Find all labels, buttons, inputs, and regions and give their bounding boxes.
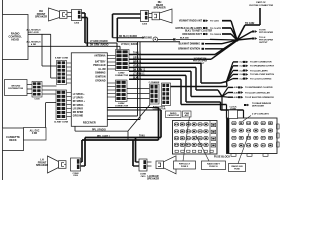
svg-text:C205: C205 <box>74 23 80 25</box>
svg-text:ALL MODELS: ALL MODELS <box>26 29 41 32</box>
wire <box>222 96 228 99</box>
wire <box>176 38 210 40</box>
svg-text:DEFOGGER: DEFOGGER <box>252 105 264 107</box>
svg-text:C100: C100 <box>34 99 40 101</box>
wire <box>113 13 141 15</box>
svg-text:TAN | 1: TAN | 1 <box>133 52 141 55</box>
svg-text:EXC 4 DR: EXC 4 DR <box>28 31 39 34</box>
wire <box>85 42 117 44</box>
wire <box>67 116 72 118</box>
svg-text:TO FUEL PUMP SWITCH: TO FUEL PUMP SWITCH <box>250 74 275 76</box>
svg-text:TO SPEAKERS OUTPUT: TO SPEAKERS OUTPUT <box>250 65 275 68</box>
wire <box>107 96 115 98</box>
svg-text:GROUND: GROUND <box>11 86 21 88</box>
wire <box>67 100 72 102</box>
svg-text:RF SPKR -: RF SPKR - <box>73 105 85 107</box>
wire <box>132 140 134 166</box>
wire <box>158 38 173 40</box>
wire <box>28 45 120 47</box>
wire <box>227 66 234 82</box>
svg-text:CONN: CONN <box>230 109 236 111</box>
fuse block right grid tabs <box>277 124 280 129</box>
label all-exc note box <box>24 128 47 141</box>
svg-text:A 2B: A 2B <box>234 96 239 99</box>
wire <box>190 71 192 96</box>
svg-text:GROUND: GROUND <box>95 80 106 82</box>
receiver <box>71 53 107 127</box>
wire <box>221 109 244 111</box>
wire <box>147 161 152 163</box>
wire <box>180 79 182 104</box>
svg-text:1 CA: 1 CA <box>239 73 244 76</box>
wire <box>226 105 228 119</box>
wire <box>2 0 4 15</box>
wire <box>149 17 153 19</box>
wire <box>67 82 72 84</box>
wire <box>195 67 197 90</box>
junction X blob <box>235 38 238 41</box>
wire <box>222 20 231 22</box>
wire <box>245 24 260 26</box>
wire <box>133 165 139 167</box>
wire <box>139 42 141 120</box>
wire <box>79 161 82 163</box>
label fuse pwr accy <box>174 161 196 169</box>
connector C2 <box>162 83 171 106</box>
wire <box>137 42 139 116</box>
svg-text:SPEAKER: SPEAKER <box>153 7 165 10</box>
wire <box>82 17 88 19</box>
wire <box>127 93 150 95</box>
wire <box>107 68 115 70</box>
wire <box>147 165 152 167</box>
wire <box>67 96 72 98</box>
wire <box>129 70 191 72</box>
wire <box>117 41 180 43</box>
radio control head <box>3 15 29 60</box>
wire <box>127 98 150 100</box>
svg-text:ILLUM: ILLUM <box>98 69 105 71</box>
svg-text:1 CA: 1 CA <box>239 65 244 68</box>
fuse block right grid <box>227 118 278 154</box>
wire <box>222 87 228 96</box>
wire <box>67 74 72 76</box>
connector, RH front speaker <box>72 10 82 21</box>
svg-text:LT GRN | RADIO: LT GRN | RADIO <box>90 40 108 43</box>
wire <box>201 82 221 84</box>
svg-text:LF SPKR -: LF SPKR - <box>73 98 84 100</box>
wire <box>42 65 57 67</box>
cassette deck <box>3 128 24 151</box>
connector A, 8-way <box>116 50 130 71</box>
label radio batt fuse <box>202 161 226 170</box>
wire <box>243 110 245 119</box>
wire <box>85 137 161 139</box>
svg-text:SPEAKER: SPEAKER <box>147 178 159 180</box>
wire <box>129 74 186 76</box>
svg-text:TO C281: TO C281 <box>210 21 220 23</box>
wire <box>107 86 115 88</box>
svg-text:C410: C410 <box>142 23 148 26</box>
svg-text:PART OF: PART OF <box>256 1 266 4</box>
fuse block left grid <box>173 121 218 155</box>
wire <box>129 78 181 80</box>
wire <box>82 139 159 141</box>
wire <box>222 33 231 35</box>
svg-text:BLK | 1: BLK | 1 <box>133 78 142 80</box>
wire <box>67 104 72 106</box>
wire <box>28 33 51 35</box>
svg-text:OUTPUT: OUTPUT <box>259 42 268 44</box>
svg-text:BLK/WHT DIMMING: BLK/WHT DIMMING <box>179 44 201 46</box>
wire <box>51 77 57 79</box>
wire <box>107 82 115 84</box>
connector, ground distribution <box>32 82 42 98</box>
wire <box>50 34 52 78</box>
wire <box>82 12 86 14</box>
wire custom connector stub <box>259 8 261 25</box>
svg-text:DECK: DECK <box>9 138 16 142</box>
svg-text:SPEAKER: SPEAKER <box>36 164 48 167</box>
wire <box>149 13 153 15</box>
svg-text:DIMMING: DIMMING <box>95 73 105 75</box>
wire <box>84 13 86 43</box>
wire <box>67 112 72 114</box>
svg-text:SPEAKER: SPEAKER <box>35 16 47 19</box>
wire <box>42 85 57 87</box>
wire diag to lower-left <box>128 105 150 132</box>
svg-text:TO ILLUM LAMPS: TO ILLUM LAMPS <box>250 69 268 72</box>
wire <box>68 16 72 18</box>
svg-text:TO CLOCK LIGHTING: TO CLOCK LIGHTING <box>250 78 272 80</box>
connector U2, 12-way <box>56 90 67 120</box>
svg-text:FUSE BLOCK: FUSE BLOCK <box>214 156 230 159</box>
svg-text:CUSTOM CONNECTOR: CUSTOM CONNECTOR <box>249 5 274 7</box>
svg-text:12-WAY CONN: 12-WAY CONN <box>54 121 69 124</box>
svg-text:ALL EXC: ALL EXC <box>30 130 40 133</box>
wire <box>136 161 140 163</box>
svg-text:OUTPUT: OUTPUT <box>196 63 205 65</box>
svg-text:FRT DR SPKR: FRT DR SPKR <box>259 32 273 34</box>
svg-text:DK GRN | 1: DK GRN | 1 <box>133 69 146 71</box>
svg-text:FUSE 2: FUSE 2 <box>181 166 189 168</box>
svg-text:ANTENNA: ANTENNA <box>94 55 106 58</box>
connector C1 <box>150 84 160 104</box>
wire <box>119 46 121 49</box>
wire <box>181 104 227 106</box>
wire <box>117 17 140 19</box>
wire <box>158 108 160 141</box>
speaker, RH front <box>49 8 68 21</box>
wire <box>107 89 115 91</box>
connector, RH rear speaker <box>141 11 149 22</box>
wire <box>75 130 128 132</box>
ground distribution cell <box>5 80 28 96</box>
svg-text:TO UP ELECTED OPERATOR: TO UP ELECTED OPERATOR <box>245 96 274 99</box>
wire <box>2 151 4 181</box>
wire <box>79 165 85 167</box>
connector, LH front speaker <box>71 158 81 171</box>
wire <box>127 88 150 90</box>
wire <box>2 60 4 129</box>
wire <box>200 63 202 83</box>
wire <box>45 103 47 128</box>
speaker, RH rear <box>152 9 172 23</box>
wire <box>67 66 72 68</box>
svg-text:2 OF 4 CIRCUITS: 2 OF 4 CIRCUITS <box>252 113 269 116</box>
wire <box>67 108 72 110</box>
wire <box>107 109 161 111</box>
wire <box>113 37 145 39</box>
connector, LH rear speaker <box>139 159 147 171</box>
wire <box>67 78 72 80</box>
wire <box>171 86 228 88</box>
wire <box>237 32 252 41</box>
wire <box>107 58 115 60</box>
svg-text:PPL | RADIO: PPL | RADIO <box>92 128 106 131</box>
wire <box>116 43 118 50</box>
svg-text:GROUND: GROUND <box>73 116 84 118</box>
wire <box>67 92 72 94</box>
wire <box>107 61 115 63</box>
wire <box>160 110 162 138</box>
svg-text:4 DR: 4 DR <box>31 43 36 46</box>
wire <box>135 138 137 163</box>
wire <box>112 14 114 38</box>
svg-text:PPL | GRY |: PPL | GRY | <box>97 136 110 138</box>
svg-text:RR SPKR: RR SPKR <box>73 112 84 114</box>
wire <box>237 25 245 40</box>
wire <box>186 101 221 103</box>
wire <box>237 39 252 41</box>
wire <box>185 75 187 102</box>
wire <box>42 89 57 91</box>
svg-text:YEL | 1: YEL | 1 <box>133 66 141 68</box>
svg-text:A 2B: A 2B <box>234 91 239 94</box>
wire <box>107 119 140 121</box>
svg-text:DK BLU | RADIO: DK BLU | RADIO <box>119 35 137 38</box>
svg-text:DISTRIBUTION: DISTRIBUTION <box>8 88 23 90</box>
wire pointer <box>196 136 209 162</box>
wire pointer <box>243 116 251 122</box>
speaker, LH front <box>48 156 67 173</box>
wire <box>41 34 43 66</box>
svg-text:LT BLU | RADIO: LT BLU | RADIO <box>121 43 139 46</box>
svg-text:LT GRN | 1: LT GRN | 1 <box>133 74 145 76</box>
wire <box>227 71 234 82</box>
svg-text:BRN/WHT IGNITION: BRN/WHT IGNITION <box>178 49 200 51</box>
svg-text:RECEIVER: RECEIVER <box>83 122 96 125</box>
wire pointer <box>238 134 249 164</box>
wire <box>196 89 218 91</box>
wire <box>218 90 222 97</box>
svg-text:ORN RADIO BATT: ORN RADIO BATT <box>182 33 202 36</box>
wire <box>107 65 115 67</box>
svg-text:TO ILLUM CONTROLLER: TO ILLUM CONTROLLER <box>245 92 270 94</box>
wire <box>84 138 86 167</box>
wire <box>67 70 72 72</box>
svg-text:ALL MODELS: ALL MODELS <box>26 41 41 44</box>
svg-text:1 CA: 1 CA <box>239 69 244 72</box>
wire pointer <box>183 117 190 162</box>
clock connector <box>229 107 238 119</box>
svg-text:DK GRN | RADIO: DK GRN | RADIO <box>90 44 109 47</box>
svg-text:TAN |: TAN | <box>139 135 145 138</box>
wire <box>42 93 57 95</box>
wire <box>68 12 72 14</box>
wire <box>127 131 129 140</box>
svg-text:IGNITION: IGNITION <box>95 77 106 79</box>
connector B, 8-way <box>116 80 128 102</box>
svg-text:GRY | 1: GRY | 1 <box>133 58 142 60</box>
svg-text:1 CA: 1 CA <box>239 77 244 80</box>
wire <box>129 54 215 56</box>
svg-text:VIO/WHT RADIO ANT: VIO/WHT RADIO ANT <box>179 20 203 23</box>
svg-text:8-WAY CONN: 8-WAY CONN <box>55 57 69 60</box>
svg-text:BLK 450: BLK 450 <box>180 37 190 40</box>
svg-text:GROUND: GROUND <box>142 38 153 40</box>
svg-text:BATTERY: BATTERY <box>95 60 106 63</box>
svg-text:4 DR: 4 DR <box>32 132 38 135</box>
svg-text:FUSE 10: FUSE 10 <box>209 166 218 168</box>
arrow to rear window defogger <box>244 104 247 106</box>
svg-text:C ORANGE: C ORANGE <box>149 81 160 84</box>
wire <box>27 84 32 86</box>
svg-text:FUSE: FUSE <box>234 168 240 170</box>
svg-text:PWR LEAD: PWR LEAD <box>93 64 106 67</box>
wire <box>107 93 115 95</box>
power antenna box <box>183 111 192 117</box>
svg-text:RF SPKR +: RF SPKR + <box>73 101 86 103</box>
speaker, LH rear <box>156 156 176 174</box>
wire <box>227 74 234 81</box>
radio capacitor <box>166 111 182 118</box>
wire <box>46 102 56 104</box>
svg-text:A 2B: A 2B <box>234 86 239 89</box>
wire <box>27 93 32 95</box>
svg-text:TO INSTRUMENT CLUSTER: TO INSTRUMENT CLUSTER <box>245 87 273 89</box>
svg-text:BRN | 1: BRN | 1 <box>133 61 142 63</box>
wire <box>107 55 115 57</box>
svg-text:LF SPKR +: LF SPKR + <box>73 94 85 96</box>
label radio ign fuse <box>229 164 246 172</box>
wire <box>107 115 137 117</box>
svg-text:CONNECTOR: CONNECTOR <box>115 105 129 107</box>
wire <box>226 82 229 87</box>
wire <box>116 18 118 42</box>
wire <box>191 96 222 98</box>
wire <box>74 126 76 131</box>
svg-text:TO C282 B: TO C282 B <box>210 34 221 36</box>
wire <box>227 79 234 82</box>
wire <box>222 93 228 97</box>
wire <box>27 88 32 90</box>
wire <box>129 62 201 64</box>
svg-text:CONNECTOR: CONNECTOR <box>115 75 129 77</box>
wire <box>129 66 196 68</box>
svg-text:TO ANT CONNECTOR: TO ANT CONNECTOR <box>250 61 272 64</box>
wire <box>107 107 158 109</box>
wire <box>222 27 231 29</box>
wire <box>129 58 211 60</box>
wire <box>220 102 222 110</box>
wire <box>81 140 83 162</box>
wire <box>221 82 227 84</box>
wire <box>221 97 223 111</box>
svg-text:TO C282: TO C282 <box>245 23 255 25</box>
wire <box>86 18 88 47</box>
svg-text:BLK | TO INST CLUSTER: BLK | TO INST CLUSTER <box>185 30 212 32</box>
svg-text:HEAD: HEAD <box>11 38 19 42</box>
wire <box>227 62 234 82</box>
svg-text:LR SPKR: LR SPKR <box>73 108 83 110</box>
svg-text:CAPACITOR: CAPACITOR <box>167 114 179 117</box>
wire <box>67 62 72 64</box>
svg-text:1 CA: 1 CA <box>239 61 244 64</box>
connector U1, 8-way <box>57 61 67 85</box>
